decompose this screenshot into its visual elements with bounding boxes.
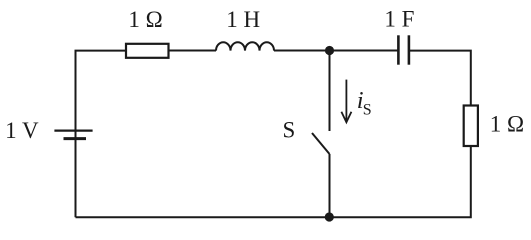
svg-text:1 Ω: 1 Ω (128, 7, 162, 32)
svg-text:1 F: 1 F (384, 7, 414, 32)
wire capacitor to top-right corner and down (409, 51, 471, 106)
capacitor C1 (1 F) plates (397, 35, 400, 64)
battery V1 short plate (64, 137, 87, 140)
wire left vertical (76, 51, 127, 218)
wire node A down to switch (329, 51, 331, 132)
resistor R2 (1 ohm, vertical box) (464, 106, 478, 147)
svg-text:1 V: 1 V (5, 118, 39, 143)
svg-text:S: S (363, 101, 372, 118)
inductor L1 (1 H) (216, 42, 274, 50)
wire switch to bottom node (329, 154, 331, 217)
current arrow iS (345, 80, 347, 121)
wire inductor to node A (274, 50, 398, 52)
resistor R1 (1 ohm, horizontal box) (126, 44, 169, 58)
svg-text:1 H: 1 H (226, 7, 260, 32)
wire right resistor to bottom-right corner (76, 146, 471, 217)
wire resistor to inductor (169, 50, 217, 52)
svg-text:S: S (283, 118, 296, 143)
battery V1 (1 V) long plate (54, 130, 92, 132)
switch S blade (312, 133, 330, 154)
node A (top junction dot) (325, 46, 334, 55)
node B (bottom junction dot) (325, 212, 334, 221)
svg-text:1 Ω: 1 Ω (490, 112, 524, 137)
